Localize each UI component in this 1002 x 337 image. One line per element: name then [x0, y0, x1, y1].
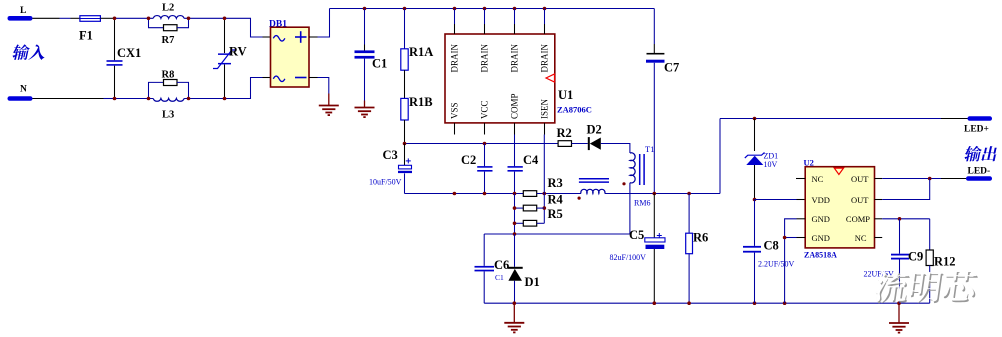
svg-text:D2: D2: [587, 123, 602, 137]
watermark: [875, 272, 911, 304]
svg-text:U1: U1: [558, 88, 573, 102]
T1 secondary core bars: [579, 178, 609, 180]
wire bottom rail into DB1: [184, 98, 224, 100]
svg-text:L2: L2: [162, 3, 174, 14]
svg-text:C3: C3: [383, 148, 398, 162]
transformer T1 secondary winding: [581, 189, 605, 193]
wire mid rail (VCC): [405, 143, 559, 145]
svg-text:COMP: COMP: [846, 214, 870, 224]
U1 pin DRAIN 1: [454, 9, 456, 25]
svg-text:LED+: LED+: [964, 125, 989, 135]
svg-text:DRAIN: DRAIN: [510, 44, 520, 73]
U1 pin VSS: [454, 123, 456, 135]
diode D2: [588, 137, 590, 150]
svg-text:C7: C7: [664, 61, 679, 75]
U1 red marker: [546, 74, 555, 82]
zener ZD1: [754, 119, 756, 152]
resistor R1B: [401, 98, 408, 120]
resistor R7: [149, 18, 164, 27]
svg-text:GND: GND: [812, 214, 830, 224]
svg-text:C6: C6: [494, 258, 509, 272]
capacitor C9: [899, 219, 901, 254]
terminal LED-: [966, 176, 992, 181]
resistor R2: [558, 141, 571, 147]
U2 pin OUT 2: [875, 199, 883, 201]
svg-text:CX1: CX1: [117, 46, 141, 60]
svg-text:N: N: [20, 85, 27, 95]
label output (Chinese): [963, 146, 982, 162]
wire LED+ rail: [720, 118, 941, 120]
svg-text:NC: NC: [855, 233, 867, 243]
ground (DB1): [328, 94, 330, 106]
terminal L: [8, 16, 33, 21]
svg-text:VCC: VCC: [480, 100, 490, 119]
junction dots top rail: [363, 7, 367, 11]
wire ISEN vertical: [543, 135, 545, 224]
svg-text:R12: R12: [934, 255, 956, 269]
wire C1 to ground: [364, 59, 366, 101]
svg-text:C2: C2: [461, 153, 476, 167]
svg-text:D1: D1: [525, 275, 540, 289]
svg-text:OUT: OUT: [851, 174, 869, 184]
wire R2 to D2: [572, 143, 588, 145]
U2 pin NC right: [875, 237, 883, 239]
svg-text:T1: T1: [645, 144, 654, 154]
svg-text:C8: C8: [764, 239, 779, 253]
svg-text:L3: L3: [162, 110, 174, 121]
varistor RV: [224, 18, 226, 53]
terminal LED+: [968, 116, 993, 121]
T1 primary polarity dot: [622, 182, 625, 185]
resistor R8: [149, 82, 164, 98]
resistor R4: [515, 207, 524, 209]
wire OUT to LED-: [882, 178, 941, 180]
U2 pin GND 2: [797, 237, 806, 239]
U1 pin DRAIN 4: [544, 9, 546, 25]
svg-text:C1: C1: [372, 57, 387, 71]
svg-text:ZA8518A: ZA8518A: [804, 251, 837, 260]
ground (right): [898, 303, 900, 323]
wire top rail to L2 block: [115, 17, 154, 19]
label input (Chinese): [11, 44, 30, 60]
svg-text:NC: NC: [812, 174, 824, 184]
U2 red marker: [834, 168, 843, 174]
U1 pin ISEN: [544, 123, 546, 135]
svg-text:RM6: RM6: [634, 199, 650, 208]
U2 pin NC left: [796, 178, 805, 180]
resistor R12: [929, 219, 931, 250]
inductor L3: [153, 99, 184, 102]
U2 pin COMP: [875, 218, 883, 220]
wire D2 to primary: [601, 144, 630, 154]
wire primary down to freewheel line: [629, 183, 631, 234]
T1 primary core bars: [639, 154, 641, 185]
wire COMP vertical to freewheel node: [514, 194, 516, 235]
svg-text:R5: R5: [548, 207, 563, 221]
resistor R5: [515, 222, 524, 224]
svg-text:R2: R2: [557, 126, 572, 140]
svg-text:R1A: R1A: [409, 45, 433, 59]
U2 pin GND 1: [797, 218, 806, 220]
svg-text:10uF/50V: 10uF/50V: [369, 178, 402, 187]
svg-text:82uF/100V: 82uF/100V: [610, 253, 647, 262]
svg-text:C1: C1: [495, 273, 504, 282]
terminal N: [8, 96, 33, 101]
wire F1 to node: [100, 17, 114, 19]
resistor R6: [688, 194, 690, 234]
bridge rectifier DB1: [271, 27, 310, 87]
capacitor C7: [653, 44, 655, 54]
resistor R3: [523, 191, 536, 197]
U1 pin VCC: [484, 123, 486, 135]
wire top power rail: [330, 8, 655, 10]
wire freewheel line: [484, 233, 630, 235]
wire DB1 - output to ground: [309, 77, 318, 79]
ground (C1): [364, 101, 366, 108]
wire top rail into DB1: [225, 18, 263, 37]
svg-text:ZA8706C: ZA8706C: [557, 105, 592, 115]
svg-text:DRAIN: DRAIN: [540, 44, 550, 73]
wire GND tie: [785, 219, 797, 303]
capacitor C8: [754, 200, 756, 246]
svg-text:RV: RV: [229, 45, 247, 59]
svg-text:R3: R3: [548, 176, 563, 190]
wire OUT2 tie: [882, 179, 930, 200]
op-amp U1: [445, 34, 555, 123]
svg-text:L: L: [20, 6, 26, 16]
svg-text:10V: 10V: [764, 160, 778, 169]
wire L to F1: [33, 17, 60, 19]
wire bottom to R8 block: [115, 98, 154, 100]
wire rail down to C7: [653, 9, 655, 45]
U1 pin DRAIN 3: [514, 9, 516, 25]
junction dots lower rail: [453, 192, 457, 196]
wire N to CX1 node: [33, 98, 104, 100]
capacitor C5: [653, 194, 655, 238]
transformer T1 primary winding: [630, 153, 635, 183]
wire R1A to R1B: [404, 70, 406, 98]
svg-text:VDD: VDD: [812, 195, 830, 205]
svg-text:GND: GND: [812, 233, 830, 243]
svg-text:U2: U2: [804, 158, 814, 168]
capacitor C1: [364, 9, 366, 45]
svg-text:R4: R4: [548, 193, 564, 207]
svg-text:F1: F1: [79, 29, 93, 43]
wire COMP net: [882, 218, 930, 220]
capacitor C2: [484, 144, 486, 167]
diode D1: [514, 234, 516, 267]
svg-text:ISEN: ISEN: [540, 99, 550, 120]
svg-text:R1B: R1B: [409, 95, 433, 109]
svg-text:R8: R8: [162, 70, 175, 81]
wire DB1 + output to top rail: [309, 36, 318, 38]
U2 pin OUT 1: [875, 178, 883, 180]
svg-text:DRAIN: DRAIN: [450, 44, 460, 73]
junction dots input rails: [113, 17, 117, 21]
regulator U2: [805, 167, 874, 248]
wire L2 to RV node: [184, 17, 224, 19]
svg-text:COMP: COMP: [510, 93, 520, 119]
svg-text:DB1: DB1: [269, 20, 287, 30]
wire R1B down to mid rail: [404, 120, 406, 144]
svg-text:OUT: OUT: [851, 195, 869, 205]
capacitor C6: [483, 234, 485, 266]
capacitor C4: [514, 135, 516, 167]
capacitor CX1: [114, 18, 116, 60]
svg-text:LED-: LED-: [968, 167, 991, 177]
U1 pin DRAIN 2: [484, 9, 486, 25]
svg-text:C4: C4: [523, 153, 539, 167]
fuse F1: [80, 16, 101, 22]
wire bottom rail: [484, 302, 930, 304]
inductor L2: [153, 16, 184, 19]
svg-text:R6: R6: [693, 231, 708, 245]
svg-text:2.2UF/50V: 2.2UF/50V: [758, 260, 794, 269]
wire lower rail up to LED+ rail: [719, 119, 721, 194]
capacitor C3: [404, 144, 406, 166]
U1 pin COMP: [514, 123, 516, 135]
wire VDD line: [755, 199, 797, 201]
svg-text:C5: C5: [629, 228, 644, 242]
ground (main left): [513, 303, 515, 323]
svg-text:R7: R7: [162, 35, 175, 46]
resistor R1A: [404, 9, 406, 49]
wire secondary to output node: [605, 193, 720, 195]
svg-text:DRAIN: DRAIN: [480, 44, 490, 73]
svg-text:VSS: VSS: [450, 102, 460, 119]
wire R3 to ISEN node: [537, 193, 581, 195]
wire lower rail: [404, 193, 406, 195]
svg-text:C9: C9: [908, 250, 923, 264]
T1 secondary polarity dot: [578, 197, 581, 200]
